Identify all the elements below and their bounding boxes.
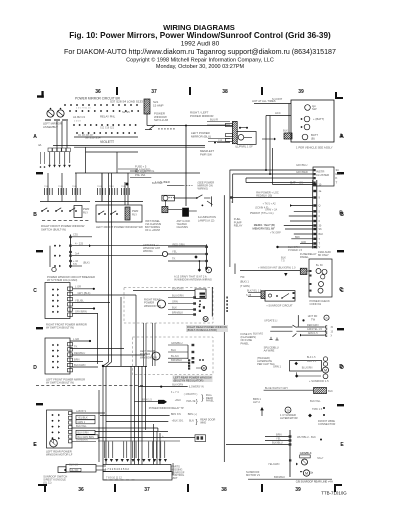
svg-text:MEMORY/SEL 68": MEMORY/SEL 68" (253, 227, 276, 231)
svg-text:SW ILLUM: SW ILLUM (154, 118, 169, 122)
svg-text:PANEL: PANEL (206, 400, 215, 403)
svg-text:UL 600: UL 600 (71, 470, 79, 472)
svg-text:PANEL: PANEL (241, 341, 250, 345)
svg-text:BLN: BLN (189, 420, 194, 423)
svg-text:BLU/GRN: BLU/GRN (172, 293, 184, 297)
svg-text:TK: TK (74, 344, 78, 348)
svg-text:BRN/BLK: BRN/BLK (274, 475, 285, 479)
svg-text:BLU: BLU (171, 348, 176, 352)
svg-text:(B): (B) (311, 136, 315, 140)
svg-text:BLK/YEL: BLK/YEL (152, 181, 163, 185)
svg-text:TW: TW (311, 317, 316, 321)
svg-text:BLK/GRN: BLK/GRN (172, 287, 184, 291)
svg-text:BLK/YEL: BLK/YEL (310, 399, 321, 403)
svg-text:RED/GRN: RED/GRN (307, 324, 319, 327)
svg-text:36: 36 (78, 487, 84, 493)
svg-text:7.5: 7.5 (281, 259, 285, 263)
svg-text:D: D (339, 364, 343, 370)
svg-text:ILL/PNRL 1 OF: ILL/PNRL 1 OF (235, 145, 253, 149)
svg-text:M: M (204, 318, 207, 322)
svg-text:NN+7: NN+7 (317, 457, 324, 460)
svg-text:YEL/BL: YEL/BL (75, 298, 84, 302)
svg-text:GRN/ + 2A: GRN/ + 2A (265, 209, 277, 212)
svg-text:S2 S5: S2 S5 (122, 110, 130, 114)
svg-text:RED/BLU: RED/BLU (74, 351, 85, 355)
svg-text:UPDATE LI: UPDATE LI (264, 319, 277, 323)
svg-text:+BLK 30/1: +BLK 30/1 (172, 420, 184, 423)
svg-text:38: 38 (221, 487, 227, 493)
svg-text:BRN 3/N: BRN 3/N (171, 413, 181, 416)
svg-text:GRY (BLK): GRY (BLK) (78, 291, 91, 295)
svg-text:7531: 7531 (44, 186, 50, 188)
svg-text:GRN/BLU: GRN/BLU (171, 341, 183, 345)
svg-text:M: M (305, 472, 308, 476)
svg-text:WND: WND (200, 422, 206, 425)
svg-text:B: B (339, 211, 343, 217)
svg-text:RLY: RLY (83, 210, 88, 214)
svg-text:BLK/YEL: BLK/YEL (76, 424, 87, 428)
svg-text:YEL: YEL (276, 436, 281, 440)
svg-text:(BUILT-IN REGULATOR): (BUILT-IN REGULATOR) (187, 328, 217, 332)
svg-text:1 3 5 7 9 11 13: 1 3 5 7 9 11 13 (76, 108, 91, 110)
svg-text:VIOLETT: VIOLETT (100, 140, 114, 144)
svg-text:C: C (33, 288, 37, 294)
svg-text:C35: C35 (73, 233, 78, 237)
svg-text:BLK: BLK (172, 305, 177, 309)
svg-text:YEL/GRN: YEL/GRN (268, 462, 280, 466)
svg-text:PNL 15A: PNL 15A (135, 173, 146, 177)
svg-text:WINDOW SW: WINDOW SW (144, 304, 161, 308)
svg-text:BLK/GRN: BLK/GRN (78, 432, 89, 435)
svg-text:BLUE WHT/LT GRY: BLUE WHT/LT GRY (265, 386, 288, 390)
svg-text:BRN 1.5: BRN 1.5 (142, 399, 152, 402)
svg-text:Fig. 10: Power Mirrors, Power: Fig. 10: Power Mirrors, Power Window/Sun… (69, 31, 331, 40)
svg-text:BLK 1.5: BLK 1.5 (307, 356, 316, 359)
svg-text:1 PER VEHICLE SEE ASSLY: 1 PER VEHICLE SEE ASSLY (296, 146, 333, 150)
svg-text:(BLK) 1: (BLK) 1 (240, 279, 249, 283)
svg-text:BLK 1.5: BLK 1.5 (69, 463, 78, 466)
svg-text:37: 37 (151, 89, 157, 95)
svg-text:( 4 BANTX ): ( 4 BANTX ) (184, 393, 198, 396)
svg-text:PWR: PWR (132, 209, 138, 213)
svg-text:POWER MIRROR: POWER MIRROR (190, 114, 213, 118)
svg-text:MOTOR V1: MOTOR V1 (246, 473, 260, 477)
svg-text:F: F (208, 268, 210, 272)
svg-text:(LOWER)* IN: (LOWER)* IN (189, 385, 204, 388)
svg-text:39: 39 (298, 89, 304, 95)
svg-text:+ SUNROOF CIRCUIT: + SUNROOF CIRCUIT (266, 304, 293, 308)
svg-text:39: 39 (295, 487, 301, 493)
svg-text:L GR: L GR (73, 337, 79, 341)
svg-text:ALT 2: ALT 2 (253, 400, 260, 404)
svg-text:7 8 9 10 11 12: 7 8 9 10 11 12 (106, 477, 122, 480)
svg-text:ASSEMBLY: ASSEMBLY (43, 125, 58, 129)
svg-text:RLY: RLY (132, 212, 137, 216)
svg-text:W/ SYSTEM 10A (LOAD): W/ SYSTEM 10A (LOAD) (47, 278, 77, 282)
svg-text:ACC: ACC (275, 111, 281, 115)
svg-text:TK: TK (172, 257, 176, 261)
svg-text:+BLK: +BLK (175, 399, 182, 402)
svg-text:T: T (336, 181, 338, 185)
svg-text:(SL 11): (SL 11) (43, 481, 51, 485)
svg-text:BLK/YEL 1.0: BLK/YEL 1.0 (247, 290, 262, 293)
svg-text:ADM 1.5: ADM 1.5 (308, 332, 318, 335)
svg-text:(BLK): (BLK) (83, 261, 90, 265)
svg-text:WHT/BLU - BLK: WHT/BLU - BLK (297, 435, 316, 439)
svg-text:OF A +30VM: OF A +30VM (145, 228, 160, 232)
svg-text:LAB BY1: LAB BY1 (76, 410, 87, 413)
svg-text:80 ONLY: 80 ONLY (318, 253, 329, 257)
svg-text:PWL/JE: PWL/JE (186, 400, 195, 403)
svg-text:M1 M3 M5 M7: M1 M3 M5 M7 (78, 134, 94, 137)
svg-text:Monday, October 30, 2000 03:2: Monday, October 30, 2000 03:27PM (156, 64, 245, 70)
svg-text:+ TK/1 + A2: + TK/1 + A2 (263, 202, 277, 205)
svg-text:BL A/C: BL A/C (171, 354, 179, 358)
svg-text:BRN/BLK: BRN/BLK (171, 358, 182, 362)
svg-text:POWER 1.5: POWER 1.5 (288, 248, 303, 252)
svg-text:YEL: YEL (172, 250, 177, 254)
svg-text:A: A (339, 134, 343, 140)
svg-text:PWR: PWR (83, 207, 89, 211)
svg-text:BRN (+): BRN (+) (188, 413, 197, 416)
svg-text:2 4 6 8: 2 4 6 8 (74, 121, 81, 123)
svg-text:For DIAKOM-AUTO http://www.dia: For DIAKOM-AUTO http://www.diakom.ru Tag… (64, 48, 336, 56)
svg-text:S.R.: S.R. (218, 139, 223, 142)
svg-text:UNIT: UNIT (172, 476, 178, 480)
svg-text:BRK: BRK (295, 236, 300, 239)
svg-text:CLUSTER: CLUSTER (316, 173, 329, 177)
svg-text:BLU/GRN: BLU/GRN (302, 366, 313, 369)
svg-text:K: K (336, 176, 338, 180)
svg-text:IN WINDOW ANTENNA WIRING: IN WINDOW ANTENNA WIRING (174, 278, 212, 282)
svg-text:C/B SUNROOF REAR LINE +4 A: C/B SUNROOF REAR LINE +4 A (296, 481, 333, 484)
svg-text:YEL/BLK: YEL/BLK (78, 417, 88, 420)
svg-text:TTB-71010G: TTB-71010G (321, 491, 347, 496)
svg-text:7531: 7531 (72, 186, 78, 188)
svg-text:GRY/RED: GRY/RED (296, 170, 308, 174)
svg-text:BRN/BLK: BRN/BLK (172, 310, 183, 314)
svg-text:ADD: ADD (301, 241, 306, 244)
svg-text:L GR: L GR (75, 285, 81, 289)
svg-text:M: M (203, 367, 206, 371)
svg-text:W/ SWITCH (BUILT IN): W/ SWITCH (BUILT IN) (46, 326, 74, 330)
svg-text:B: B (33, 212, 37, 218)
svg-text:7531: 7531 (121, 186, 127, 188)
svg-text:GRY/BLU: GRY/BLU (296, 163, 307, 167)
svg-text:PWR SW: PWR SW (200, 152, 212, 156)
svg-text:AA WIRE: AA WIRE (264, 349, 275, 353)
svg-text:GRN 1: GRN 1 (78, 421, 86, 424)
svg-text:GRN: GRN (172, 299, 178, 303)
svg-text:WIRING: WIRING (143, 249, 153, 253)
svg-text:(BUILT-IN REGULATOR): (BUILT-IN REGULATOR) (174, 379, 204, 383)
svg-text:BLK: BLK (328, 389, 333, 393)
svg-text:37: 37 (144, 487, 150, 493)
svg-text:W/ SWITCH (BUILT IN): W/ SWITCH (BUILT IN) (46, 381, 74, 385)
svg-text:GRN/BRN: GRN/BRN (76, 439, 88, 442)
svg-text:C: C (339, 287, 343, 293)
svg-text:MEMO. YEA? (B): MEMO. YEA? (B) (254, 223, 275, 227)
svg-text:(T GRN): (T GRN) (240, 284, 250, 288)
svg-text:CHASSIS: CHASSIS (177, 225, 189, 229)
svg-text:36: 36 (95, 89, 101, 95)
svg-text:WIRING): WIRING) (198, 187, 209, 191)
svg-text:BLK: BLK (319, 233, 324, 236)
svg-text:4 - 225: 4 - 225 (75, 241, 84, 245)
svg-text:Copyright © 1998 Mitchell Repa: Copyright © 1998 Mitchell Repair Informa… (126, 57, 274, 64)
svg-text:MIRROR (BLU): MIRROR (BLU) (191, 134, 211, 138)
svg-text:BRN: BRN (276, 432, 282, 436)
svg-text:Q: Q (319, 205, 321, 208)
svg-text:BRN: BRN (74, 357, 80, 361)
svg-text:ALTERNATOR: ALTERNATOR (280, 416, 298, 420)
svg-text:1 7 3 2 8 4 6 4 5 9 2: 1 7 3 2 8 4 6 4 5 9 2 (105, 467, 129, 471)
svg-text:A: A (33, 134, 37, 140)
svg-text:POWER WINDOW RELAY TP: POWER WINDOW RELAY TP (149, 406, 184, 410)
svg-text:+ SUNROOF 1.5: + SUNROOF 1.5 (309, 379, 329, 383)
svg-text:750: 750 (240, 275, 245, 279)
svg-text:(30): (30) (299, 181, 303, 184)
svg-text:RELAY PNL: RELAY PNL (100, 115, 116, 119)
svg-text:CONN 91: CONN 91 (310, 302, 322, 306)
svg-text:BLK/BLU: BLK/BLU (272, 440, 283, 444)
svg-text:PANEL: PANEL (300, 255, 309, 259)
svg-text:S12 S18 S22: S12 S18 S22 (100, 127, 115, 130)
svg-text:7531: 7531 (58, 186, 64, 188)
svg-text:3x4: 3x4 (75, 251, 80, 255)
svg-text:15 AMP: 15 AMP (153, 104, 164, 108)
svg-text:BLK/VIO: BLK/VIO (253, 332, 263, 336)
svg-text:SWITCH (BUILT-IN): SWITCH (BUILT-IN) (41, 227, 66, 231)
svg-text:BAT: BAT (290, 181, 296, 185)
svg-text:+TK GRP: +TK GRP (270, 231, 281, 234)
svg-text:BLK/GRN: BLK/GRN (74, 363, 86, 367)
svg-text:A1 B2 C3: A1 B2 C3 (73, 115, 85, 119)
svg-text:C: C (326, 316, 328, 320)
svg-text:WINDOW SW: WINDOW SW (140, 355, 157, 359)
svg-text:4A: 4A (38, 143, 42, 147)
svg-text:1992 Audi 80: 1992 Audi 80 (181, 41, 220, 48)
svg-text:3 + 7 4: 3 + 7 4 (171, 391, 179, 394)
svg-text:GRN/YEL 1.5: GRN/YEL 1.5 (307, 328, 323, 331)
svg-text:S CONT: S CONT (272, 97, 283, 101)
svg-text:TRW 1.5: TRW 1.5 (312, 407, 323, 411)
svg-text:WINDOW MOTOR LF: WINDOW MOTOR LF (46, 453, 73, 457)
svg-text:RELAY: RELAY (234, 224, 243, 228)
svg-text:PWR/CH (T/T/+/-4 L): PWR/CH (T/T/+/-4 L) (250, 212, 274, 215)
svg-text:BLK/GRN: BLK/GRN (172, 384, 183, 387)
svg-text:RED/BLK (30): RED/BLK (30) (256, 195, 272, 198)
svg-text:D: D (33, 365, 37, 371)
svg-text:GRY/BRN: GRY/BRN (75, 309, 87, 313)
svg-text:T/C: T/C (73, 262, 77, 266)
svg-text:+ WINDOW ANT (BLK/GRN) 1.0: + WINDOW ANT (BLK/GRN) 1.0 (258, 265, 296, 269)
svg-text:38: 38 (222, 89, 228, 95)
svg-text:GRN/BLK: GRN/BLK (300, 451, 312, 455)
svg-text:RED GRN: RED GRN (173, 243, 185, 247)
svg-text:GRN 1: GRN 1 (273, 364, 281, 368)
svg-text:SW: SW (312, 107, 317, 111)
svg-text:1h: 1h (310, 470, 314, 474)
svg-text:BLU/R: BLU/R (210, 118, 218, 122)
svg-text:HOT FD: HOT FD (308, 314, 318, 318)
svg-text:M: M (324, 369, 327, 373)
svg-text:LEFT FRONT POWER WINDOW SW: LEFT FRONT POWER WINDOW SW (96, 225, 143, 229)
svg-text:S37 S28 S4 LOAD S133: S37 S28 S4 LOAD S133 (110, 100, 143, 104)
svg-text:LAMPS (A 12): LAMPS (A 12) (198, 218, 215, 222)
svg-text:B+ 30: B+ 30 (316, 264, 323, 267)
svg-text:+ (BATT): + (BATT) (313, 117, 324, 121)
svg-text:GRN 1.5: GRN 1.5 (307, 360, 317, 363)
svg-text:BLK: BLK (283, 129, 288, 133)
svg-text:CONNECTOR: CONNECTOR (318, 422, 335, 426)
